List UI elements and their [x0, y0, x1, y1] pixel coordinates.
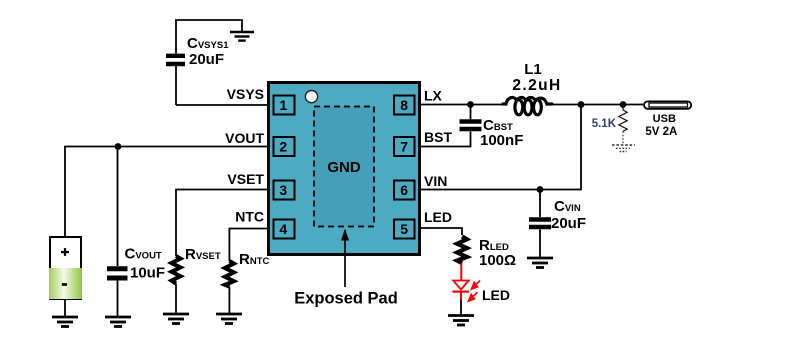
LED D1: [452, 281, 469, 300]
svg-text:NTC: NTC: [235, 209, 264, 225]
wire VSET net: [176, 190, 267, 257]
resistor RNTC: [225, 261, 234, 313]
svg-text:7: 7: [400, 139, 408, 155]
svg-text:Exposed Pad: Exposed Pad: [294, 290, 398, 308]
pin 1 indicator dot: [305, 91, 317, 103]
wire LX net: [421, 104, 643, 106]
wire LED net: [421, 228, 462, 235]
svg-text:5V 2A: 5V 2A: [645, 126, 677, 138]
svg-text:LED: LED: [424, 209, 452, 225]
label L1 2.2uH: [512, 61, 561, 94]
svg-text:VSET: VSET: [227, 171, 264, 187]
wire VIN net: [421, 105, 581, 190]
junction node 5.1K tap: [620, 101, 627, 108]
label CVSYS1 20uF: [187, 35, 229, 68]
svg-text:5.1K: 5.1K: [592, 118, 617, 130]
wire VSYS net: top loop to Cvsys1 and ground: [176, 20, 267, 105]
junction node LX/Cbst: [467, 101, 474, 108]
svg-text:CVSYS1: CVSYS1: [187, 35, 229, 52]
svg-text:100nF: 100nF: [480, 132, 523, 149]
LED light arrows: [467, 281, 480, 303]
svg-text:RVSET: RVSET: [185, 246, 221, 263]
junction node VIN/Cvin: [537, 186, 544, 193]
resistor RVSET: [172, 256, 181, 313]
svg-text:L1: L1: [524, 61, 542, 78]
svg-text:USB: USB: [653, 113, 676, 125]
svg-text:CVOUT: CVOUT: [125, 246, 162, 263]
wire NTC net: [229, 229, 267, 262]
svg-text:6: 6: [400, 182, 408, 198]
resistor RLED: [457, 237, 467, 264]
svg-text:BST: BST: [424, 129, 452, 145]
capacitor CVSYS1: [166, 56, 185, 64]
svg-text:20uF: 20uF: [551, 215, 586, 232]
ground (Cvout): [105, 317, 131, 327]
pin 1: [274, 96, 295, 115]
connector USB J1: [644, 101, 691, 108]
capacitor CVOUT: [107, 269, 128, 278]
svg-text:CVIN: CVIN: [554, 198, 581, 215]
pin 4: [274, 220, 295, 239]
junction node VOUT/Cvout: [115, 143, 122, 150]
op IC U1 body: [269, 83, 420, 255]
label RLED 100ohm: [479, 237, 516, 269]
wire anode (red): [460, 263, 462, 280]
ground (Cvin): [527, 258, 553, 268]
pin 6: [394, 181, 415, 200]
svg-text:LED: LED: [482, 287, 510, 303]
wire Cvout branch: [117, 147, 119, 317]
svg-text:10uF: 10uF: [130, 265, 165, 282]
wire VOUT net: [65, 147, 267, 238]
svg-text:LX: LX: [424, 88, 443, 104]
pin 2: [274, 137, 295, 156]
capacitor CBST: [460, 122, 482, 130]
inductor L1: [503, 97, 552, 114]
pin 5: [394, 220, 415, 239]
svg-text:2.2uH: 2.2uH: [512, 77, 561, 94]
ground (battery): [52, 317, 78, 327]
svg-text:VIN: VIN: [424, 173, 447, 189]
pin 8: [394, 96, 415, 115]
svg-text:3: 3: [279, 182, 287, 198]
svg-text:8: 8: [400, 97, 408, 113]
svg-text:VSYS: VSYS: [227, 86, 264, 102]
svg-text:4: 4: [279, 221, 287, 237]
wire Cvin branch: [539, 190, 541, 258]
exposed pad GND (dashed): [314, 107, 374, 227]
battery BT1: [49, 237, 82, 316]
ground (Rntc): [216, 314, 242, 324]
pin 3: [274, 181, 295, 200]
junction node L1 out: [578, 101, 585, 108]
ground (Rvset): [163, 314, 189, 324]
svg-text:5: 5: [400, 221, 408, 237]
wire cathode to ground: [460, 300, 462, 316]
svg-text:GND: GND: [327, 159, 361, 176]
label CBST 100nF: [480, 117, 523, 149]
svg-text:1: 1: [279, 97, 287, 113]
capacitor CVIN: [529, 220, 551, 228]
ground (top, for Cvsys1): [230, 32, 254, 41]
label CVOUT 10uF: [125, 246, 166, 282]
svg-text:20uF: 20uF: [189, 51, 224, 68]
ground (LED): [448, 316, 474, 326]
label CVIN 20uF: [551, 198, 586, 232]
svg-text:2: 2: [279, 139, 287, 155]
svg-text:RNTC: RNTC: [239, 251, 270, 268]
pin 7: [394, 137, 415, 156]
arrow to exposed pad: [341, 229, 349, 288]
svg-text:100Ω: 100Ω: [479, 252, 516, 269]
resistor 5.1K (thin): [619, 105, 627, 145]
ground (5.1K, dashed): [612, 145, 635, 152]
wire BST net / Cbst branch: [421, 105, 471, 147]
label USB 5V 2A: [645, 113, 677, 138]
svg-text:VOUT: VOUT: [225, 130, 264, 146]
